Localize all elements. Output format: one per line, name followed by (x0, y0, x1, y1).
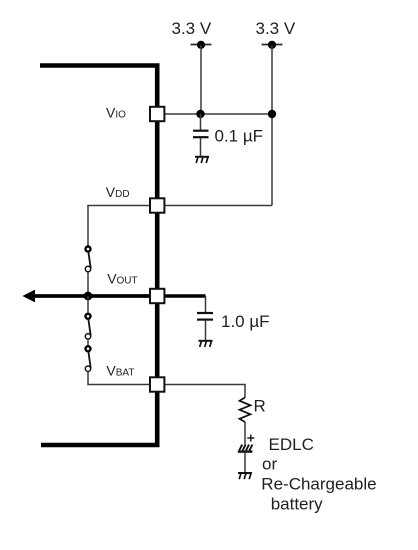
wire: between switches S2 and S3 (87, 339, 89, 346)
pin VBAT (150, 377, 164, 391)
svg-text:Re-Chargeable: Re-Chargeable (261, 475, 376, 494)
wire: VIO pin to right (160, 113, 272, 115)
junction: VOUT / switch column (84, 292, 93, 301)
wire: VDD pin to left and down to switch (88, 206, 154, 247)
junction: VIO / 3.3V left (196, 110, 204, 118)
pin VOUT (150, 289, 164, 303)
capacitor C2 1.0uF (197, 296, 213, 340)
switch S3 (lower) (85, 346, 90, 371)
wire: 3.3V(right) down to VDD wire (271, 45, 273, 206)
svg-text:0.1 µF: 0.1 µF (215, 127, 264, 146)
switch S1 (VDD to VOUT) (85, 247, 90, 272)
svg-text:R: R (254, 397, 266, 416)
wire: VOUT pin to right (thick) (160, 294, 206, 298)
pin VDD (150, 198, 164, 212)
svg-text:3.3 V: 3.3 V (256, 19, 296, 38)
wire: VDD pin to 3.3V right column (160, 205, 272, 207)
junction: VIO / 3.3V right (268, 110, 276, 118)
battery BT1 (EDLC) (238, 435, 255, 452)
label EDLC / or / Re-Chargeable battery (261, 435, 376, 514)
switch S2 (VOUT to VBAT upper) (85, 314, 90, 339)
svg-text:EDLC: EDLC (269, 435, 314, 454)
capacitor C1 0.1uF (193, 114, 209, 156)
power +3.3V (right) (256, 19, 296, 49)
IC outline (thick bracket) (40, 66, 157, 446)
svg-text:or: or (262, 455, 277, 474)
ground (under battery) (238, 473, 252, 479)
power +3.3V (left) (172, 19, 212, 49)
resistor R (240, 398, 251, 423)
svg-text:1.0 µF: 1.0 µF (221, 312, 270, 331)
VOUT output arrow (thick) (23, 290, 153, 303)
wire: VBAT pin to right and down (160, 385, 245, 398)
wire: battery to ground (244, 453, 246, 473)
svg-text:battery: battery (271, 495, 323, 514)
wire: switch S1 to VOUT net (87, 272, 89, 296)
wire: resistor to battery (244, 422, 246, 445)
ground (under C1) (195, 157, 209, 163)
ground (under C2) (199, 341, 213, 347)
wire: switch S3 down and right to VBAT pin (88, 371, 154, 384)
pin VIO (150, 107, 164, 121)
svg-text:3.3 V: 3.3 V (172, 19, 212, 38)
wire: VOUT junction down to switch S2 (87, 296, 89, 314)
wire: 3.3V(left) down to VIO net (200, 45, 202, 114)
